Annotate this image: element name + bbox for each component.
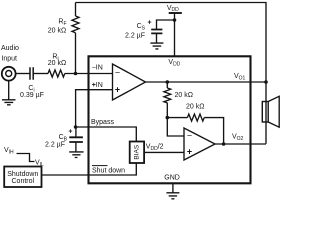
- svg-text:RF: RF: [58, 19, 66, 27]
- svg-text:Bypass: Bypass: [91, 119, 114, 126]
- svg-text:0.39 µF: 0.39 µF: [20, 92, 44, 99]
- svg-text:VDD: VDD: [168, 59, 180, 67]
- svg-text:2.2 µF: 2.2 µF: [125, 33, 145, 40]
- svg-text:CS: CS: [137, 23, 146, 31]
- svg-text:−IN: −IN: [92, 64, 103, 71]
- svg-text:+: +: [68, 128, 72, 135]
- svg-text:Control: Control: [12, 178, 35, 185]
- svg-text:2.2 µF: 2.2 µF: [45, 142, 65, 149]
- svg-text:20 kΩ: 20 kΩ: [175, 92, 193, 99]
- svg-text:Input: Input: [1, 56, 17, 63]
- svg-text:−: −: [187, 130, 192, 140]
- svg-text:VO2: VO2: [232, 133, 244, 141]
- svg-text:Audio: Audio: [1, 45, 19, 52]
- svg-text:VDD: VDD: [167, 5, 179, 13]
- svg-text:Shutdown: Shutdown: [7, 171, 38, 178]
- svg-text:Shut down: Shut down: [92, 167, 125, 174]
- svg-text:20 kΩ: 20 kΩ: [48, 28, 66, 35]
- svg-text:VIH: VIH: [4, 147, 14, 155]
- svg-text:GND: GND: [164, 175, 180, 182]
- svg-text:VDD/2: VDD/2: [146, 144, 164, 152]
- svg-text:−: −: [115, 68, 120, 78]
- svg-text:+IN: +IN: [92, 82, 103, 89]
- svg-text:20 kΩ: 20 kΩ: [186, 104, 204, 111]
- svg-text:VO1: VO1: [234, 73, 246, 81]
- svg-text:+: +: [147, 20, 151, 27]
- svg-text:BIAS: BIAS: [134, 144, 141, 159]
- svg-text:+: +: [187, 147, 192, 157]
- svg-text:20 kΩ: 20 kΩ: [48, 60, 66, 67]
- svg-text:+: +: [115, 84, 120, 94]
